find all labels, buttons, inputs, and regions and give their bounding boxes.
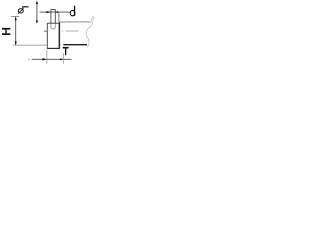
- d dimension line (horizontal y=12.4): [40, 11, 70, 13]
- head bottom edge: [47, 47, 60, 49]
- d dimension left arrow (points right, tip at stem left): [46, 11, 51, 13]
- dimension S (rotated Ø-label): oval: [18, 9, 23, 13]
- head top edge: [47, 22, 60, 24]
- H top extension tick: [11, 16, 19, 18]
- background: [0, 0, 98, 66]
- T left extension line: [46, 49, 48, 64]
- T dim left arrow (points right): [42, 58, 47, 60]
- stem hole inside head (U shape): [51, 23, 55, 29]
- dimension S (rotated Ø-label): nub: [22, 6, 23, 9]
- stem top edge: [51, 8, 55, 10]
- d dimension right arrow (points left, tip at stem right): [55, 11, 58, 13]
- H dimension line: [15, 17, 17, 45]
- T right extension line: [62, 53, 64, 64]
- break line (wavy S): [86, 17, 93, 48]
- shaft bottom edge (dark): [63, 44, 87, 46]
- stem right side: [54, 9, 56, 23]
- stem left side: [50, 9, 52, 23]
- centerline: [44, 30, 48, 32]
- label T: [63, 47, 69, 49]
- dimension S (rotated Ø-label): slash: [18, 8, 24, 13]
- label d: [74, 6, 75, 16]
- vertical dimension top arrow (up): [36, 1, 38, 4]
- T dim right arrow (points right): [60, 58, 64, 60]
- vertical dimension bottom arrow (down): [36, 20, 38, 23]
- head left edge: [46, 23, 48, 48]
- head right edge upper thin segment: [58, 13, 60, 22]
- label H (rotated): [2, 28, 10, 30]
- dimension S (rotated Ø-label) top-left: bar: [22, 6, 28, 7]
- T dimension line: [28, 58, 29, 60]
- H bottom extension line: [13, 44, 47, 46]
- shaft top edge (gray): [59, 21, 91, 23]
- H bottom arrow (down): [15, 42, 17, 46]
- H top arrow (up): [15, 17, 17, 21]
- head right edge thick: [59, 22, 61, 49]
- vertical dimension line (top, x=36.9): [36, 1, 38, 23]
